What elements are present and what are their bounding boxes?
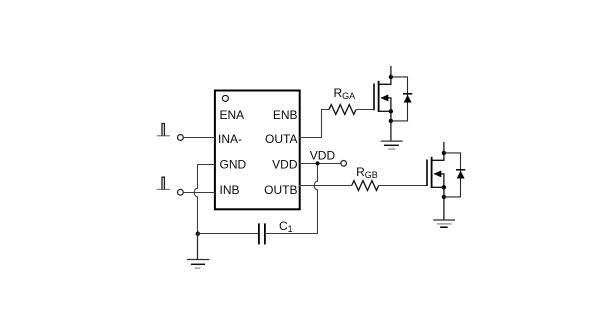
wire resistor to gate Q1 (356, 109, 374, 111)
wire source down (443, 187, 445, 197)
wire VDD pin (299, 163, 341, 165)
wire Q2 source to ground (443, 197, 445, 220)
node source-diode dot Q2 (442, 195, 446, 199)
svg-text:ENB: ENB (273, 108, 298, 122)
wire junction to capacitor (198, 233, 259, 235)
ground Q2 (433, 219, 455, 221)
IC U1 gate driver (215, 91, 300, 210)
wire drain stub up (443, 142, 445, 153)
wire Q1 source to ground (390, 121, 392, 141)
wire OUTA to resistor (299, 110, 329, 138)
node VDD junction dot (316, 161, 320, 165)
terminal circle B (178, 189, 184, 195)
svg-text:INB: INB (220, 183, 240, 197)
svg-text:OUTA: OUTA (265, 132, 297, 146)
wire INA- (184, 137, 216, 139)
svg-text:OUTB: OUTB (264, 183, 297, 197)
wire GND pin to ground (with hop over INB wire) (194, 165, 215, 234)
gate bar (426, 160, 428, 187)
svg-text:VDD: VDD (272, 158, 298, 172)
wire source down (390, 111, 392, 121)
gate bar (373, 84, 375, 111)
body diode D1 (391, 77, 412, 121)
pin 1 indicator circle (222, 95, 228, 101)
resistor RGB (352, 181, 379, 191)
capacitor C1 (258, 223, 260, 244)
pulse source symbol A (157, 135, 170, 137)
source connection (432, 186, 444, 188)
terminal circle VDD (341, 161, 347, 167)
node source dot Q2 (442, 185, 446, 189)
wire drain stub up (390, 66, 392, 77)
resistor RGA (329, 105, 356, 115)
node source-diode dot Q1 (389, 119, 393, 123)
channel bar (431, 157, 433, 188)
svg-text:VDD: VDD (310, 148, 336, 162)
svg-text:ENA: ENA (220, 108, 245, 122)
node junction dot bottom-left (196, 232, 200, 236)
pulse source symbol B (157, 188, 170, 190)
ground Q1 (381, 140, 403, 142)
terminal circle A (178, 135, 184, 141)
source connection (379, 110, 391, 112)
body arrowhead (434, 170, 442, 177)
body arrow line (434, 174, 444, 187)
ground (main) (197, 234, 199, 260)
body diode D2 (444, 153, 465, 197)
body arrowhead (381, 94, 389, 101)
svg-text:INA-: INA- (218, 132, 242, 146)
node drain dot Q2 (442, 151, 446, 155)
node drain dot Q1 (389, 75, 393, 79)
svg-text:GND: GND (220, 158, 247, 172)
wire INB (184, 192, 216, 194)
wire capacitor to VDD rail (with hop over OUTB wire) (265, 164, 317, 234)
drain connection (379, 77, 391, 84)
body arrow line (381, 98, 391, 111)
transistor Q1 (NMOS) (374, 77, 391, 112)
transistor Q2 (NMOS) (427, 153, 444, 188)
node source dot Q1 (389, 109, 393, 113)
drain connection (432, 153, 444, 160)
wire OUTB to resistor (299, 185, 352, 187)
wire resistor to gate Q2 (379, 185, 427, 187)
channel bar (378, 81, 380, 112)
